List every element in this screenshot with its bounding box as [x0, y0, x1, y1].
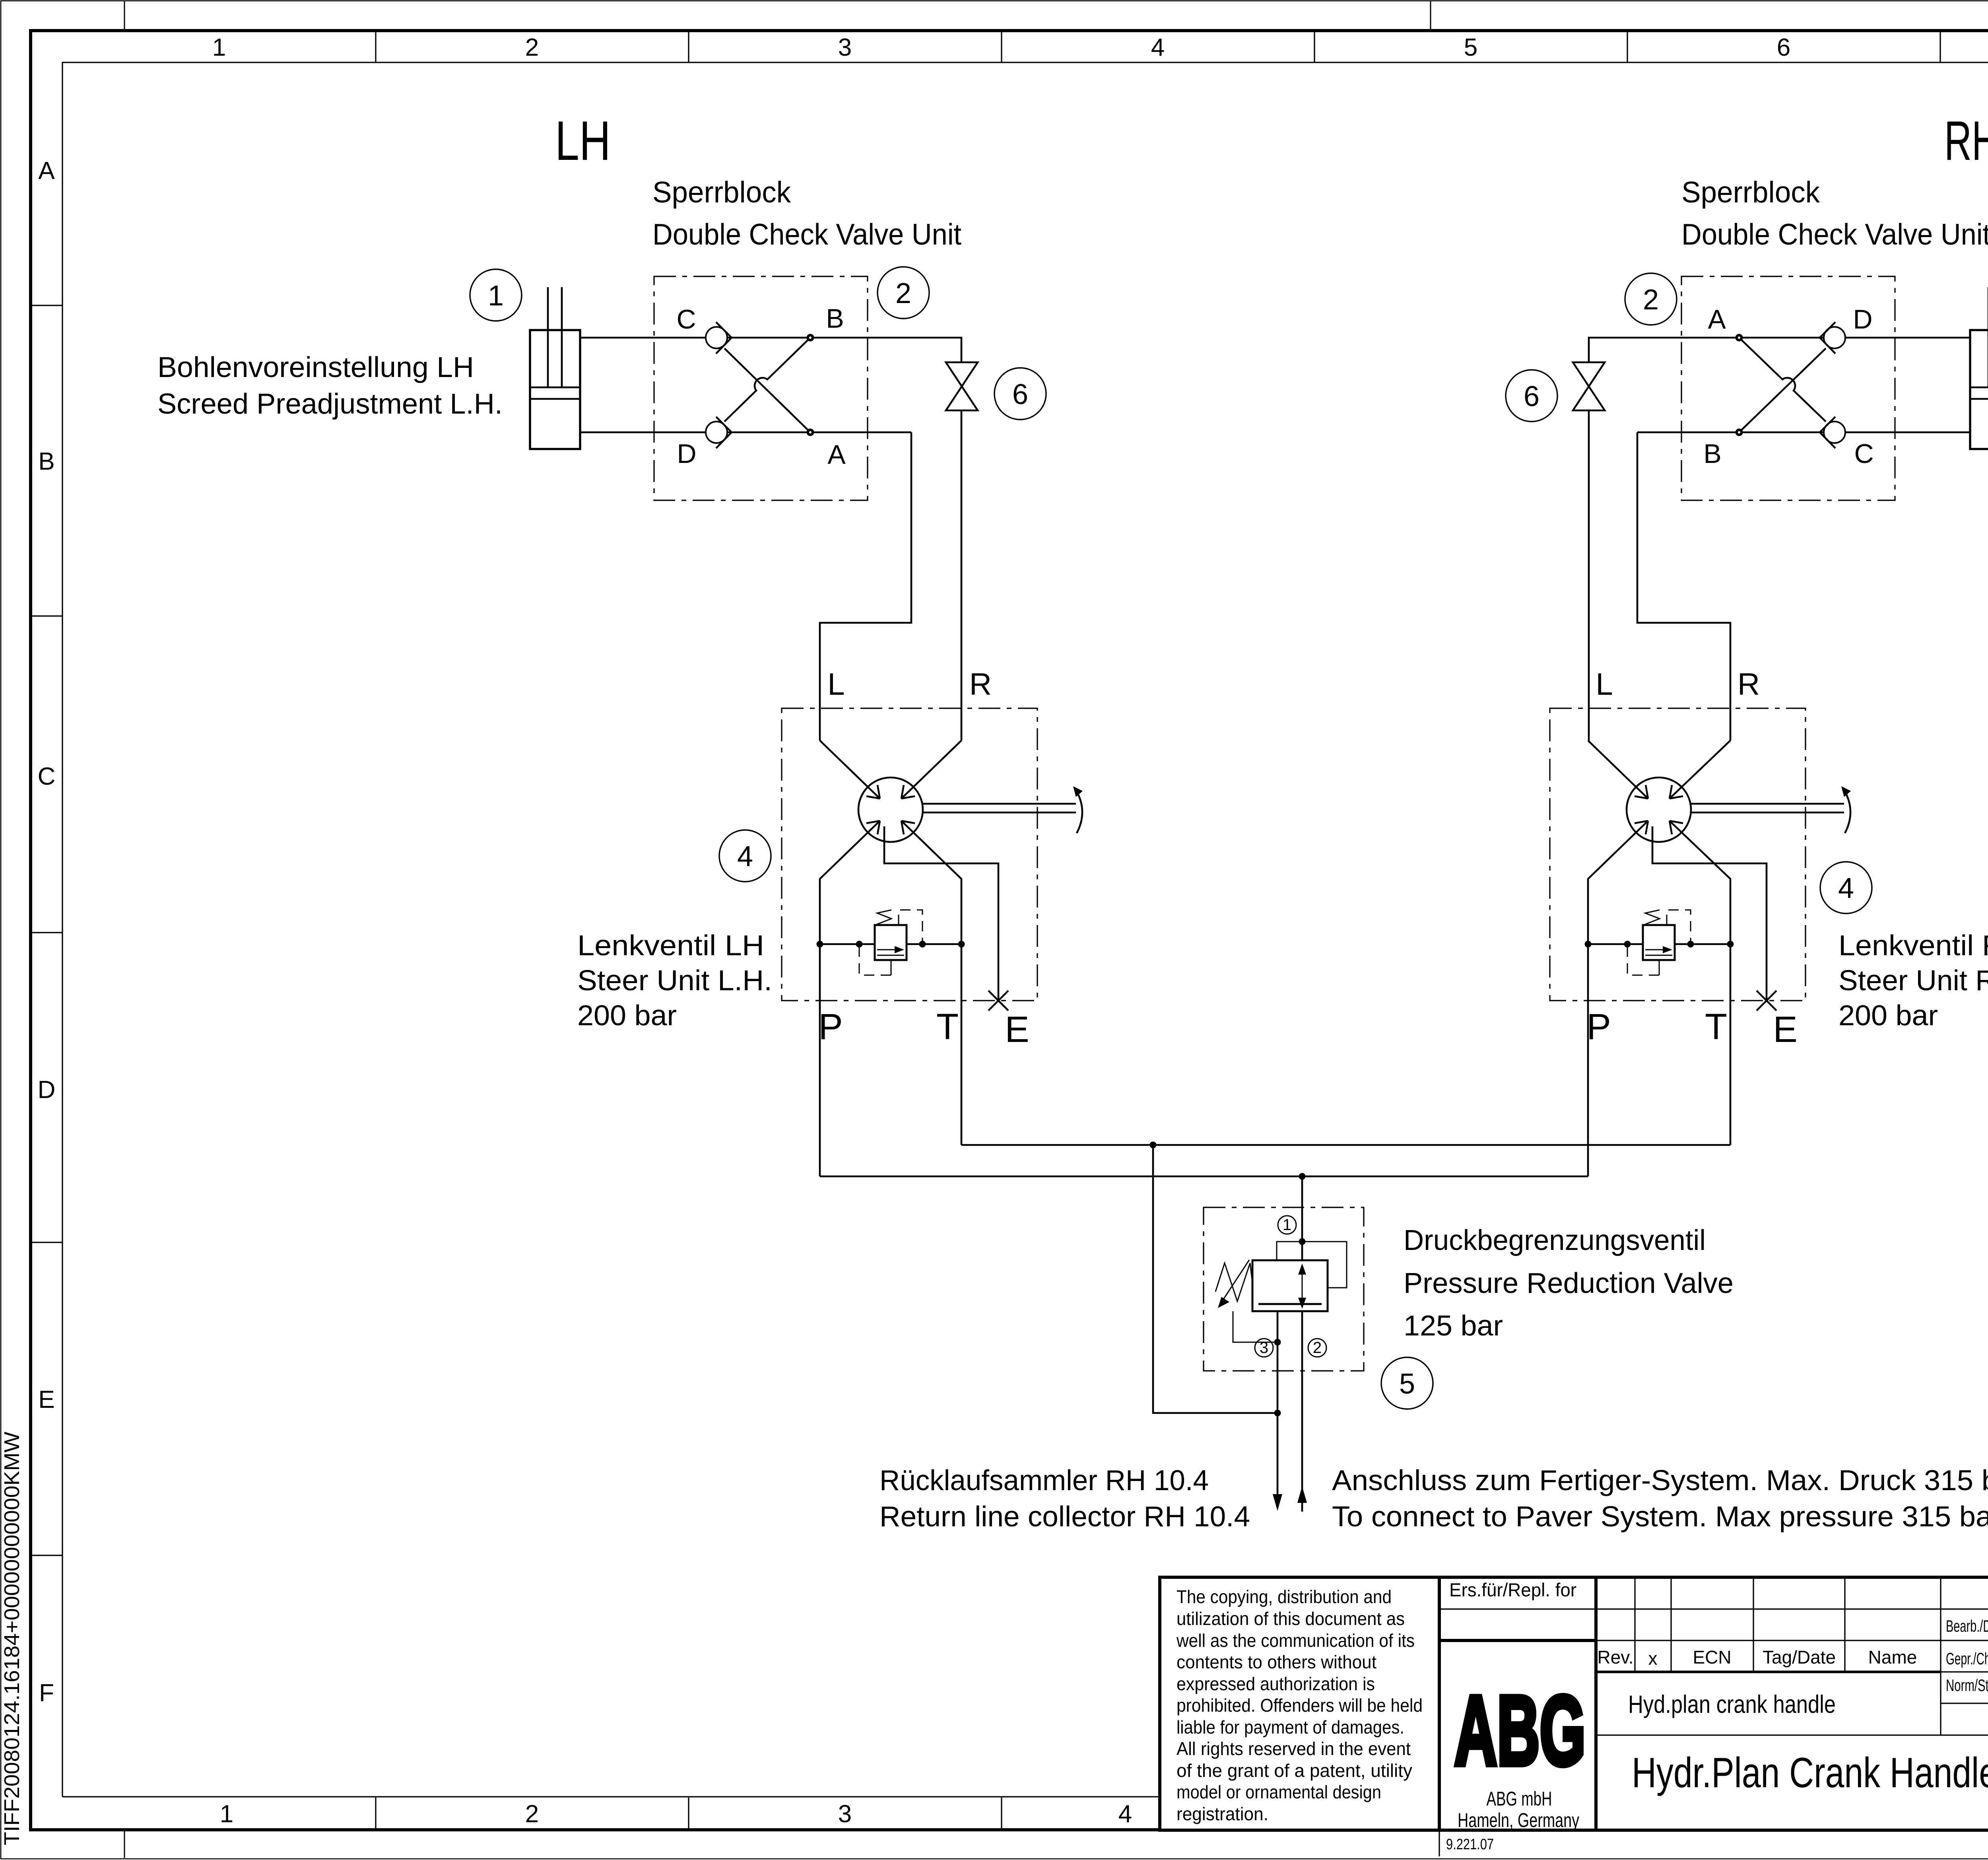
svg-text:A: A: [1708, 304, 1726, 334]
svg-text:RH: RH: [1944, 109, 1988, 172]
centering mark top middle: [1430, 1, 1431, 32]
balloon 5: [1381, 1357, 1433, 1409]
wire T net: [961, 1144, 1730, 1146]
svg-text:Rücklaufsammler RH 10.4: Rücklaufsammler RH 10.4: [879, 1465, 1209, 1497]
valve double arrow: [1258, 1263, 1322, 1309]
node T branch: [1150, 1142, 1157, 1149]
double check valve unit dashed box LH: [654, 276, 868, 500]
svg-text:LH: LH: [555, 109, 611, 172]
pilot line A to lower check valve RH (with jump): [1739, 338, 1826, 422]
svg-text:liable for payment of damages.: liable for payment of damages.: [1176, 1717, 1404, 1738]
svg-text:2: 2: [895, 278, 911, 309]
svg-text:C: C: [676, 304, 696, 334]
svg-text:Bohlenvoreinstellung LH: Bohlenvoreinstellung LH: [157, 352, 474, 383]
svg-text:ECN: ECN: [1693, 1647, 1731, 1668]
wire rotary to P LH: [820, 821, 880, 1176]
cylinder 1 LH (Bohlenvoreinstellung): [530, 287, 580, 449]
svg-text:Druckbegrenzungsventil: Druckbegrenzungsventil: [1404, 1224, 1706, 1256]
svg-text:of the grant of a patent, util: of the grant of a patent, utility: [1176, 1760, 1412, 1781]
svg-text:3: 3: [838, 34, 852, 61]
wire A to L jog LH: [820, 432, 911, 741]
balloon 6 LH: [994, 368, 1046, 420]
svg-text:B: B: [1703, 439, 1721, 469]
node P branch: [1299, 1173, 1306, 1180]
adjustment arrow: [1218, 1260, 1249, 1308]
svg-text:P: P: [818, 1007, 843, 1047]
wire B to R jog RH: [1637, 432, 1730, 741]
svg-text:P: P: [1586, 1007, 1611, 1047]
left row letters: [38, 157, 56, 1707]
svg-text:R: R: [969, 667, 992, 702]
wire bowtie to L RH: [1588, 410, 1590, 741]
rotary steering valve LH: [858, 777, 923, 842]
arrow to paver system (up): [1297, 1486, 1307, 1503]
wire L into rotary RH: [1588, 741, 1648, 799]
svg-text:Return line collector RH 10.4: Return line collector RH 10.4: [879, 1501, 1250, 1533]
svg-text:Double Check Valve Unit: Double Check Valve Unit: [652, 218, 961, 251]
svg-text:Name: Name: [1868, 1647, 1917, 1668]
double check valve unit dashed box RH: [1681, 276, 1895, 500]
bottom column numbers: [220, 1800, 1132, 1828]
left row dividers: [31, 305, 62, 1555]
svg-text:Lenkventil RH: Lenkventil RH: [1839, 930, 1988, 962]
svg-text:6: 6: [1777, 34, 1790, 61]
svg-text:Double Check Valve Unit: Double Check Valve Unit: [1681, 218, 1988, 251]
circled port number 3: [1255, 1339, 1273, 1357]
svg-text:2: 2: [525, 34, 539, 61]
wire L into rotary LH: [820, 741, 880, 799]
relief valve LH in steer unit: [817, 910, 965, 975]
drain X RH: [1757, 991, 1776, 1011]
svg-text:well as the communication of i: well as the communication of its: [1176, 1630, 1415, 1651]
svg-text:2: 2: [1643, 284, 1659, 316]
svg-text:5: 5: [1399, 1368, 1415, 1400]
shutoff valve 6 LH (bowtie): [946, 362, 978, 410]
svg-text:ABG: ABG: [1454, 1675, 1586, 1786]
balloon 2 RH: [1625, 273, 1677, 325]
wire rotary to E LH: [884, 826, 998, 1001]
thick top of subtitle cell: [1596, 1671, 1941, 1673]
svg-text:5: 5: [1464, 34, 1477, 61]
node collector junction: [1274, 1410, 1281, 1417]
svg-text:Ers.für/Repl. for: Ers.für/Repl. for: [1449, 1579, 1576, 1600]
svg-text:L: L: [1596, 667, 1613, 702]
wire C-B line LH: [580, 338, 961, 362]
svg-text:1: 1: [212, 34, 226, 61]
check valve D LH: [706, 417, 732, 448]
svg-text:T: T: [1705, 1007, 1727, 1047]
svg-text:prohibited. Offenders will be: prohibited. Offenders will be held: [1176, 1695, 1423, 1716]
svg-text:T: T: [936, 1007, 959, 1047]
svg-text:4: 4: [1151, 34, 1165, 61]
wire rotary to T LH: [901, 821, 961, 1145]
drain X LH: [988, 991, 1008, 1011]
title block outer border: [1160, 1577, 1988, 1830]
svg-text:x: x: [1648, 1648, 1658, 1669]
revision table verticals: [1635, 1577, 1941, 1735]
steer unit dashed box LH: [782, 708, 1037, 1001]
wire R into rotary RH: [1670, 741, 1730, 799]
svg-text:6: 6: [1524, 381, 1540, 412]
node A LH: [807, 429, 814, 436]
node A RH: [1736, 334, 1743, 342]
svg-text:3: 3: [838, 1800, 852, 1828]
svg-text:Sperrblock: Sperrblock: [1681, 175, 1820, 209]
svg-text:4: 4: [737, 841, 753, 873]
node B RH: [1736, 429, 1743, 436]
svg-text:F: F: [39, 1679, 54, 1707]
signature table labels: [1946, 1617, 1988, 1695]
svg-text:1: 1: [1283, 1216, 1291, 1234]
shutoff valve 6 RH (bowtie): [1573, 362, 1605, 410]
svg-text:registration.: registration.: [1176, 1804, 1268, 1824]
svg-text:To connect to Paver System. Ma: To connect to Paver System. Max pressure…: [1332, 1501, 1988, 1533]
title block thin horizontals: [1439, 1609, 1988, 1735]
svg-text:Tag/Date: Tag/Date: [1763, 1647, 1836, 1668]
svg-text:The copying, distribution and: The copying, distribution and: [1176, 1586, 1392, 1607]
wire P branch down to valve port 1: [1301, 1176, 1303, 1260]
svg-text:1: 1: [220, 1800, 233, 1828]
svg-text:Hydr.Plan Crank Handle: Hydr.Plan Crank Handle: [1632, 1749, 1988, 1796]
svg-text:2: 2: [525, 1800, 539, 1828]
valve spring: [1215, 1263, 1252, 1301]
svg-text:B: B: [38, 448, 54, 475]
revision table headers: [1597, 1647, 1917, 1669]
svg-text:E: E: [1005, 1009, 1029, 1050]
crank handle LH: [923, 786, 1083, 833]
crank handle RH: [1691, 786, 1851, 833]
svg-text:200 bar: 200 bar: [1839, 1000, 1938, 1032]
svg-text:Pressure Reduction Valve: Pressure Reduction Valve: [1404, 1267, 1734, 1299]
balloon 2 LH: [878, 267, 929, 319]
svg-text:6: 6: [1012, 379, 1028, 410]
wire R into rotary LH: [901, 741, 961, 799]
wire port 3 down to collector: [1277, 1311, 1279, 1494]
svg-text:2: 2: [1313, 1339, 1322, 1357]
balloon 6 RH: [1506, 370, 1557, 422]
rotary steering valve RH: [1627, 777, 1691, 842]
title block bottom extension: [1439, 1830, 1440, 1856]
circled port number 2: [1308, 1339, 1326, 1357]
svg-text:B: B: [826, 303, 844, 334]
centering mark bottom left: [124, 1829, 125, 1858]
cylinder 1 RH (Bohlenvoreinstellung): [1970, 287, 1988, 449]
circled port number 1: [1278, 1216, 1296, 1234]
copyright text: [1176, 1586, 1423, 1824]
svg-text:Anschluss zum Fertiger-System.: Anschluss zum Fertiger-System. Max. Druc…: [1332, 1465, 1988, 1497]
svg-text:4: 4: [1838, 873, 1854, 904]
svg-text:D: D: [1853, 304, 1872, 334]
wire D-A line LH: [580, 431, 911, 433]
title block background: [1160, 1577, 1988, 1830]
svg-text:C: C: [38, 763, 56, 790]
svg-text:E: E: [38, 1386, 54, 1413]
svg-text:Steer Unit L.H.: Steer Unit L.H.: [577, 965, 772, 997]
top column dividers: [376, 32, 1988, 62]
svg-text:Sperrblock: Sperrblock: [652, 175, 791, 209]
svg-text:9.221.07: 9.221.07: [1446, 1836, 1494, 1853]
wire rotary to E RH: [1652, 826, 1767, 1001]
svg-text:Hyd.plan crank handle: Hyd.plan crank handle: [1628, 1691, 1836, 1718]
title block thick verticals: [1439, 1577, 1596, 1830]
balloon 1 LH: [470, 269, 522, 321]
svg-text:Gepr./Chkd.: Gepr./Chkd.: [1946, 1649, 1988, 1668]
svg-text:TIFF20080124.16184+00000000000: TIFF20080124.16184+00000000000KMW: [0, 1432, 24, 1845]
svg-text:L: L: [827, 667, 845, 702]
svg-text:contents to others without: contents to others without: [1176, 1652, 1376, 1672]
node port 1: [1299, 1238, 1306, 1245]
check valve C RH: [1820, 417, 1845, 448]
svg-text:R: R: [1738, 667, 1760, 702]
pressure valve dashed box: [1204, 1207, 1364, 1371]
svg-text:D: D: [677, 439, 696, 469]
wire bowtie to R LH: [961, 410, 963, 741]
wire rotary to T RH: [1670, 821, 1730, 1145]
wire rotary to P RH: [1588, 821, 1648, 1176]
svg-text:Bearb./Drawn: Bearb./Drawn: [1946, 1617, 1988, 1635]
wire P net: [820, 1176, 1588, 1178]
svg-text:expressed authorization is: expressed authorization is: [1176, 1673, 1375, 1694]
pilot line B to lower check valve LH (with jump): [724, 338, 810, 422]
check valve D RH: [1820, 322, 1845, 354]
wire port 2 down to paver system: [1301, 1311, 1303, 1512]
arrow to collector (down): [1273, 1494, 1282, 1511]
svg-text:model or ornamental design: model or ornamental design: [1176, 1782, 1381, 1802]
title block thick segment above logo: [1439, 1639, 1596, 1642]
valve body square: [1252, 1260, 1328, 1311]
svg-text:4: 4: [1118, 1800, 1132, 1828]
svg-text:E: E: [1773, 1009, 1797, 1050]
node B LH: [807, 334, 814, 342]
node pilot: [1274, 1339, 1281, 1346]
balloon 4 LH: [719, 830, 771, 882]
valve pilot to port 3: [1233, 1311, 1277, 1342]
svg-text:All rights reserved in the eve: All rights reserved in the event: [1176, 1738, 1411, 1759]
steer unit dashed box RH: [1550, 708, 1806, 1001]
svg-text:C: C: [1854, 439, 1873, 469]
pilot line B to upper check valve RH: [1739, 348, 1826, 432]
svg-text:A: A: [38, 157, 55, 185]
wire A-D line RH: [1589, 338, 1970, 362]
bypass rectangle left: [1277, 1242, 1302, 1260]
svg-text:ABG mbH: ABG mbH: [1487, 1788, 1552, 1810]
svg-text:125 bar: 125 bar: [1404, 1310, 1503, 1342]
svg-text:Steer Unit R.H.: Steer Unit R.H.: [1839, 965, 1988, 997]
svg-text:Hameln, Germany: Hameln, Germany: [1458, 1809, 1579, 1831]
bypass rectangle right: [1302, 1242, 1347, 1288]
wire B-C line RH: [1637, 431, 1970, 433]
svg-text:utilization of this document a: utilization of this document as: [1176, 1608, 1405, 1629]
bottom column dividers: [376, 1798, 1002, 1829]
svg-text:200 bar: 200 bar: [577, 1000, 677, 1032]
svg-text:Lenkventil LH: Lenkventil LH: [577, 930, 764, 962]
svg-text:Norm/Stds.: Norm/Stds.: [1946, 1676, 1988, 1695]
top column numbers: [212, 34, 1988, 61]
wire T branch down to collector: [1153, 1145, 1277, 1413]
check valve C LH: [706, 322, 732, 354]
svg-text:3: 3: [1260, 1339, 1268, 1357]
centering mark top left: [124, 1, 125, 32]
balloon 4 RH: [1820, 862, 1872, 913]
svg-text:Rev.: Rev.: [1597, 1647, 1633, 1668]
svg-text:1: 1: [488, 280, 504, 312]
svg-text:D: D: [38, 1076, 56, 1104]
svg-text:Screed Preadjustment L.H.: Screed Preadjustment L.H.: [157, 388, 503, 420]
relief valve RH in steer unit: [1585, 910, 1734, 975]
pilot line A to upper check valve LH: [724, 348, 810, 432]
svg-text:A: A: [827, 439, 846, 470]
